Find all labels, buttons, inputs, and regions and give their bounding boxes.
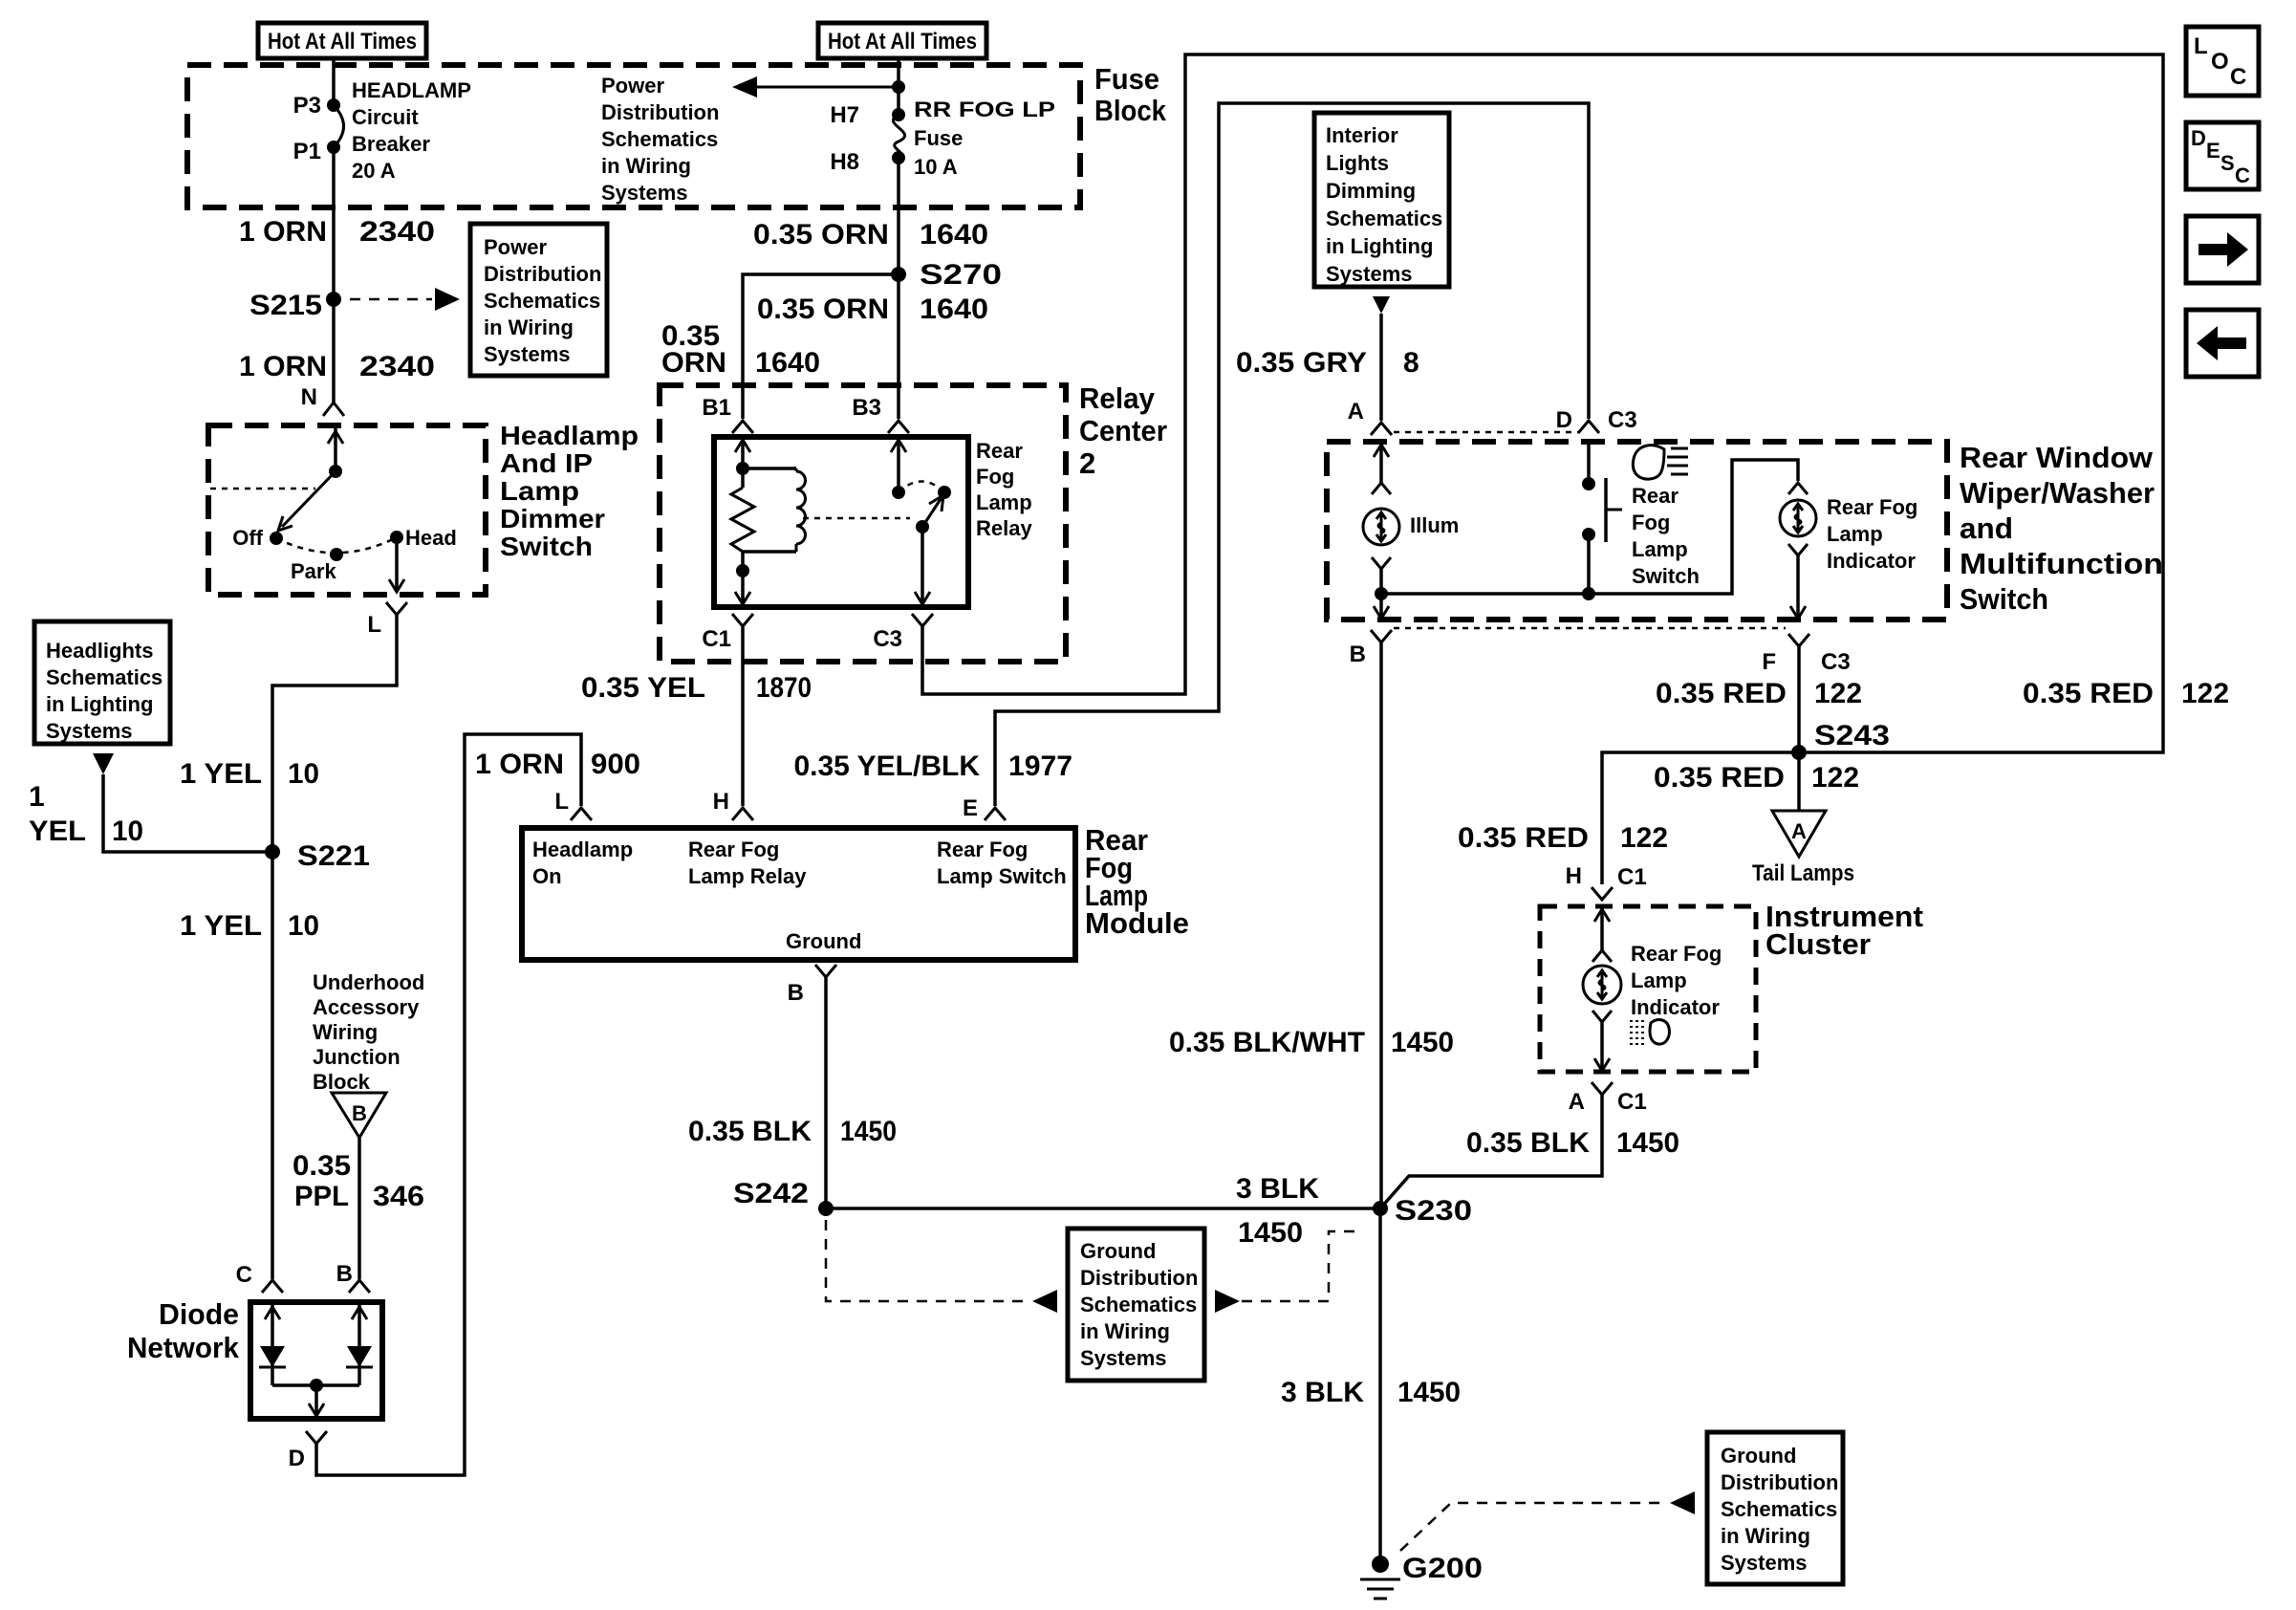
svg-text:Indicator: Indicator [1631,995,1720,1019]
Illum lamp [1363,442,1459,569]
svg-text:A: A [1569,1089,1585,1115]
svg-text:Lamp: Lamp [500,476,579,506]
cluster indicator icon [1630,1020,1669,1045]
diode 2 [346,1302,373,1385]
svg-text:Block: Block [313,1070,371,1094]
svg-text:Lamp: Lamp [1632,537,1688,561]
svg-text:0.35 YEL: 0.35 YEL [581,672,705,704]
contact Park [291,548,343,583]
svg-text:1640: 1640 [920,294,988,325]
label 1 YEL 10 [180,910,319,942]
svg-text:C: C [2235,163,2250,187]
Hot At All Times label box 1 [258,23,426,58]
svg-text:D: D [2191,126,2206,150]
wire cluster A to S230 [1380,1095,1602,1208]
relay inner box [714,437,968,607]
svg-text:Lamp Relay: Lamp Relay [688,864,807,888]
svg-text:Switch: Switch [1960,582,2048,616]
junction dot [892,80,905,94]
svg-text:C3: C3 [1821,649,1851,675]
tail lamps triangle A [1752,811,1854,886]
svg-text:Schematics: Schematics [1080,1293,1197,1316]
svg-text:0.35 ORN: 0.35 ORN [757,294,889,325]
svg-text:in Lighting: in Lighting [46,692,153,716]
svg-text:Rear: Rear [1632,484,1679,508]
svg-text:Ground: Ground [1721,1444,1796,1468]
node S215 [249,290,341,321]
Rear Fog Lamp Indicator lamp [1780,483,1917,573]
node S270 [891,259,1002,291]
svg-text:Systems: Systems [484,342,571,366]
svg-text:E: E [963,795,978,821]
svg-text:C: C [2230,64,2246,90]
svg-text:B: B [352,1101,367,1125]
svg-text:S221: S221 [297,840,370,872]
pin L connector module [554,789,592,820]
dashed travel arc [276,537,397,553]
Fuse Block dashed box [187,65,1080,207]
svg-text:Dimmer: Dimmer [500,504,605,533]
wire to S221 [103,774,272,852]
svg-text:Headlamp: Headlamp [500,421,639,450]
svg-text:1 YEL: 1 YEL [180,758,262,790]
svg-text:Interior: Interior [1326,123,1398,147]
svg-text:Off: Off [232,526,263,550]
relay coil branch [743,468,806,552]
svg-text:Fuse: Fuse [1094,62,1159,96]
junction block triangle B [332,1093,386,1138]
svg-text:N: N [301,384,317,410]
svg-text:S242: S242 [733,1178,809,1209]
pin C connector [236,1262,283,1293]
DESC box [2186,122,2259,189]
svg-text:in Wiring: in Wiring [1080,1319,1170,1343]
svg-text:Rear: Rear [976,439,1023,463]
label 0.35 PPL 346 [292,1150,424,1212]
svg-text:Relay: Relay [1079,381,1156,415]
svg-text:B3: B3 [852,395,881,421]
left arrow box [2186,310,2259,377]
svg-text:0.35 RED: 0.35 RED [1458,822,1589,854]
wire Illum to B [1374,569,1389,619]
svg-text:0.35 BLK: 0.35 BLK [1466,1127,1590,1159]
pin E connector module [963,795,1006,821]
label Rear Fog Lamp Relay [976,439,1032,540]
svg-text:Wiper/Washer: Wiper/Washer [1960,476,2155,510]
svg-text:B: B [336,1261,353,1287]
svg-text:Systems: Systems [1080,1346,1167,1370]
svg-text:0.35 ORN: 0.35 ORN [753,219,889,250]
svg-text:2: 2 [1079,446,1095,480]
svg-text:S215: S215 [249,290,322,321]
svg-text:YEL: YEL [29,816,86,847]
wire S243 down to tail lamps [1797,752,1801,811]
diode 1 [259,1302,286,1385]
label Headlamp And IP Lamp Dimmer Switch [500,421,639,561]
pin H connector module [713,789,753,820]
svg-text:Lamp: Lamp [1631,968,1687,992]
pin A connector [1348,399,1392,435]
label Rear Window Wiper/Washer and Multifunction Switch [1960,441,2163,616]
svg-text:C: C [236,1262,252,1288]
svg-text:Circuit: Circuit [352,105,419,129]
relay switch [891,437,951,604]
svg-text:H: H [1566,863,1582,889]
svg-text:Systems: Systems [1326,262,1413,286]
rear fog lamp switch push button [1582,442,1622,600]
svg-text:Distribution: Distribution [1721,1470,1838,1494]
svg-text:2340: 2340 [359,216,435,248]
pin L connector [367,602,407,638]
svg-text:Systems: Systems [601,181,688,205]
svg-text:Power: Power [484,235,547,259]
svg-text:Underhood: Underhood [313,970,424,994]
label Diode Network [127,1297,240,1364]
svg-text:Relay: Relay [976,516,1032,540]
label 0.35 GRY 8 [1236,347,1419,379]
dashed arrow S215 to Power Distribution box [350,288,460,311]
Ground Distribution Schematics reference box bottom right [1707,1432,1843,1584]
arrow from Interior Lights box [1373,296,1390,314]
svg-text:B: B [1350,642,1366,667]
label 0.35 BLK 1450 [688,1116,897,1147]
label 1 YEL 10 [180,758,319,790]
svg-text:1450: 1450 [1616,1127,1679,1159]
svg-text:in Wiring: in Wiring [601,154,691,178]
svg-text:D: D [1556,407,1572,433]
wire B down to S230 [1379,642,1383,1208]
wire Head down with arrow [389,537,404,592]
node S243 [1791,720,1890,760]
svg-text:Wiring: Wiring [313,1020,378,1044]
svg-text:Diode: Diode [159,1297,239,1331]
svg-text:10: 10 [112,816,143,847]
Rear Fog Lamp Module box [522,828,1075,960]
svg-text:Head: Head [405,526,457,550]
Relay Center 2 dashed box [660,385,1066,662]
svg-text:346: 346 [373,1181,424,1212]
label Rear Fog Lamp Module [1085,823,1189,940]
svg-text:Switch: Switch [500,532,593,561]
svg-text:0.35 YEL/BLK: 0.35 YEL/BLK [793,751,980,782]
svg-text:Rear Fog: Rear Fog [1827,495,1917,519]
svg-text:3 BLK: 3 BLK [1281,1377,1364,1408]
svg-text:ORN: ORN [661,347,726,379]
svg-text:On: On [532,864,562,888]
headlamp beam icon [1633,446,1688,479]
label 1 YEL 10 [29,781,143,847]
svg-text:1870: 1870 [756,672,812,704]
svg-text:10: 10 [288,758,319,790]
svg-text:Switch: Switch [1632,564,1700,588]
svg-text:Rear Fog: Rear Fog [688,838,779,861]
label 0.35 BLK/WHT 1450 [1169,1027,1454,1058]
label Fuse Block [1094,62,1167,127]
wire to multifunction A [1379,314,1383,421]
Headlights Schematics reference box [34,621,170,744]
svg-text:Lights: Lights [1326,151,1389,175]
pin D connector [289,1431,327,1471]
Ground Distribution Schematics reference box middle [1068,1229,1204,1381]
svg-text:8: 8 [1403,347,1419,379]
svg-text:Fog: Fog [976,465,1014,489]
wire P1 down to N [332,147,336,402]
svg-text:Accessory: Accessory [313,995,420,1019]
pin B connector [1350,630,1392,667]
ground G200 [1360,1553,1483,1599]
svg-text:2340: 2340 [359,351,435,382]
svg-text:And IP: And IP [500,448,593,478]
pin C3 connector [873,614,933,652]
svg-text:L: L [554,789,569,815]
svg-text:Lamp: Lamp [976,490,1032,514]
label 3 BLK 1450 stacked [1236,1173,1319,1249]
svg-text:L: L [2194,33,2208,59]
pin B3 connector [852,395,909,433]
svg-text:A: A [1791,819,1807,843]
circuit breaker HEADLAMP 20A [293,78,471,183]
pin F connector [1762,634,1850,675]
svg-text:B1: B1 [702,395,731,421]
Rear Window Wiper Washer Multifunction Switch dashed box [1327,442,1947,620]
wire S242 to S230 [826,1207,1380,1210]
Interior Lights Dimming reference box [1314,113,1449,287]
svg-text:Rear Window: Rear Window [1960,441,2154,474]
wire S270 branch to B1 [743,274,899,419]
svg-text:Hot At All Times: Hot At All Times [828,29,977,54]
svg-text:Systems: Systems [46,719,133,743]
svg-text:Block: Block [1094,94,1167,127]
wire Hot2 down [897,58,900,115]
pin B connector [336,1261,370,1293]
svg-text:S230: S230 [1395,1195,1472,1227]
svg-text:122: 122 [1620,822,1668,854]
module pin texts [532,838,1067,953]
label 0.35 RED 122 [1654,762,1859,794]
arrow to Power Distribution text [732,76,899,98]
relay mechanical dashed link [803,517,910,520]
svg-text:0.35 RED: 0.35 RED [1656,678,1787,709]
svg-text:C1: C1 [1617,1089,1647,1115]
svg-text:Schematics: Schematics [1326,207,1442,230]
LOC box [2186,27,2259,96]
svg-text:Lamp Switch: Lamp Switch [937,864,1067,888]
svg-text:1: 1 [29,781,45,813]
Power Distribution Schematics reference box [470,224,607,376]
Hot At All Times label box 2 [818,23,986,58]
svg-text:D: D [289,1446,305,1471]
svg-text:Headlamp: Headlamp [532,838,633,861]
svg-text:Schematics: Schematics [601,127,718,151]
svg-text:Illum: Illum [1410,513,1459,537]
svg-text:G200: G200 [1402,1553,1483,1584]
label 0.35 RED 122 [1656,678,1862,709]
svg-text:Schematics: Schematics [1721,1497,1837,1521]
wire C1 to module H [741,626,745,806]
dashed reference wire S242 to ground distribution box [826,1220,1057,1313]
svg-text:Park: Park [291,559,336,583]
relay resistor branch [731,437,754,604]
svg-text:Center: Center [1079,414,1167,447]
right arrow box [2186,216,2259,283]
svg-text:and: and [1960,511,2013,545]
svg-text:O: O [2211,49,2229,75]
svg-text:0.35 RED: 0.35 RED [2023,678,2154,709]
svg-text:RR FOG LP: RR FOG LP [914,98,1055,121]
wire lamp down to A [1594,1022,1610,1071]
svg-text:in Wiring: in Wiring [1721,1524,1810,1548]
svg-text:Rear Fog: Rear Fog [937,838,1028,861]
svg-text:Breaker: Breaker [352,132,430,156]
arrow from Headlights box [93,753,114,774]
svg-text:122: 122 [1814,678,1862,709]
wire Hot1 to P3 [332,58,336,105]
svg-text:C1: C1 [702,626,731,652]
svg-text:900: 900 [591,749,640,780]
wire S243 left to instrument cluster H [1602,752,1799,884]
text Underhood Accessory Wiring Junction Block [313,970,424,1094]
Headlamp And IP Lamp Dimmer Switch dashed box [208,425,486,595]
wire switch to indicator [1381,460,1798,594]
pin H connector cluster [1566,863,1647,900]
node S221 [265,840,370,872]
svg-text:1 ORN: 1 ORN [475,749,564,780]
node S242 [733,1178,834,1216]
wire module B to S242 [824,977,828,1208]
svg-text:P1: P1 [293,139,321,164]
svg-text:B: B [788,980,804,1006]
svg-text:122: 122 [2181,678,2229,709]
svg-text:0.35: 0.35 [292,1150,351,1182]
wire D to module L pin [316,734,581,1475]
svg-text:Distribution: Distribution [1080,1266,1198,1290]
svg-text:C3: C3 [873,626,902,652]
svg-text:Rear Fog: Rear Fog [1631,942,1722,966]
label 0.35 ORN 1640 [753,219,988,250]
svg-text:Tail Lamps: Tail Lamps [1752,860,1854,886]
svg-text:C3: C3 [1608,407,1637,433]
text Rear Fog Lamp Switch [1632,484,1700,588]
label 0.35 BLK 1450 [1466,1127,1679,1159]
label Instrument Cluster [1765,900,1923,961]
label 0.35 RED 122 far right [2023,678,2229,709]
svg-text:0.35 BLK: 0.35 BLK [688,1116,812,1147]
svg-text:Distribution: Distribution [601,100,719,124]
svg-text:E: E [2206,139,2220,163]
label 0.35 YEL 1870 [581,672,812,704]
svg-text:Hot At All Times: Hot At All Times [268,29,417,54]
svg-text:Distribution: Distribution [484,262,601,286]
svg-text:Ground: Ground [1080,1239,1156,1263]
label 0.35 YEL/BLK 1977 [793,751,1072,782]
svg-text:0.35 RED: 0.35 RED [1654,762,1785,794]
pin A connector cluster [1569,1082,1647,1115]
svg-text:10 A: 10 A [914,155,958,179]
svg-text:Fog: Fog [1632,511,1670,534]
svg-text:Headlights: Headlights [46,639,153,663]
svg-text:Indicator: Indicator [1827,549,1916,573]
connector C3 thin dashed line B to F [1394,627,1786,630]
pin C1 connector [702,614,753,652]
node S230 [1373,1195,1472,1227]
svg-text:Cluster: Cluster [1765,927,1871,961]
svg-text:Network: Network [127,1331,240,1364]
svg-text:20 A: 20 A [352,159,396,183]
wire C3 around to S243 [922,54,2163,752]
diode junction wire [272,1379,359,1419]
svg-text:H: H [713,789,729,815]
label 1 ORN 900 [475,749,640,780]
svg-text:1450: 1450 [1391,1027,1454,1058]
svg-text:Power: Power [601,74,664,98]
contact Head [390,526,457,550]
svg-text:in Lighting: in Lighting [1326,234,1433,258]
contact Off [232,526,283,550]
svg-text:Fuse: Fuse [914,126,963,150]
svg-text:1450: 1450 [1397,1377,1461,1408]
dashed reference wire G200 to box [1400,1491,1695,1551]
label 1 ORN 2340 [239,351,435,382]
svg-text:1450: 1450 [840,1116,897,1147]
svg-text:HEADLAMP: HEADLAMP [352,78,471,102]
label 3 BLK 1450 [1281,1377,1461,1408]
svg-text:1 ORN: 1 ORN [239,216,327,248]
svg-text:Schematics: Schematics [484,289,600,313]
label 0.35 ORN 1640 [757,294,988,325]
wire H8 down to B3 [897,158,900,419]
fuse RR FOG LP 10A [830,98,1055,179]
svg-text:122: 122 [1811,762,1859,794]
svg-text:S270: S270 [920,259,1002,291]
wire F to S243 [1797,646,1801,752]
svg-text:Systems: Systems [1721,1551,1808,1575]
Instrument Cluster dashed box [1540,906,1756,1072]
pin B connector module [788,965,836,1006]
svg-text:PPL: PPL [294,1181,349,1212]
svg-text:3 BLK: 3 BLK [1236,1173,1319,1205]
svg-text:S243: S243 [1814,720,1890,751]
svg-text:0.35 GRY: 0.35 GRY [1236,347,1367,379]
Diode Network box [250,1302,382,1419]
rear fog lamp indicator cluster lamp [1583,906,1722,1022]
pin N connector [301,384,344,416]
wire indicator down to F [1790,555,1806,619]
pin B1 connector [702,395,753,433]
svg-text:Module: Module [1085,906,1189,940]
connector C3 thin dashed line A to D [1394,431,1579,434]
svg-text:1977: 1977 [1008,751,1072,782]
label 0.35 ORN 1640 stacked [661,320,820,379]
svg-text:0.35 BLK/WHT: 0.35 BLK/WHT [1169,1027,1365,1058]
label 0.35 RED 122 [1458,822,1668,854]
svg-text:L: L [367,612,381,638]
svg-text:H7: H7 [830,102,859,128]
wire S230 to G200 [1378,1208,1382,1558]
text Power Distribution Schematics in Wiring Systems [601,74,719,205]
dashed reference wire box to S230 [1215,1231,1361,1313]
svg-text:P3: P3 [293,93,321,119]
svg-text:F: F [1762,649,1776,675]
dimmer switch internals [210,425,343,531]
svg-text:1450: 1450 [1238,1217,1303,1249]
svg-text:C1: C1 [1617,864,1647,890]
svg-text:A: A [1348,399,1364,424]
svg-text:Junction: Junction [313,1045,401,1069]
svg-text:in Wiring: in Wiring [484,315,574,339]
svg-text:1640: 1640 [920,219,988,250]
svg-text:Lamp: Lamp [1827,522,1883,546]
svg-text:Dimming: Dimming [1326,179,1416,203]
